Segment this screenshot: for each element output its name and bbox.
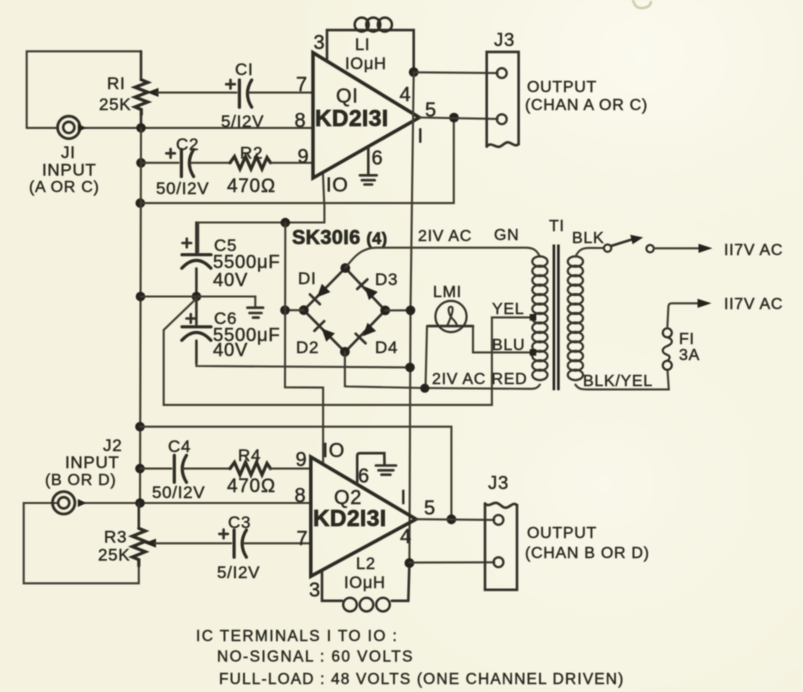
inductor L1 leads bbox=[327, 30, 414, 72]
wiper arrow R1 bbox=[147, 88, 159, 97]
junction C6 rail bbox=[405, 363, 415, 373]
arrow 117V AC top bbox=[699, 244, 713, 253]
wire R4 to pin9 bbox=[271, 468, 311, 470]
svg-text:OUTPUT: OUTPUT bbox=[527, 525, 597, 542]
svg-text:OUTPUT: OUTPUT bbox=[527, 79, 597, 96]
junction C4 branch bbox=[135, 464, 145, 474]
wire feedback row Q2 bbox=[140, 427, 451, 520]
capacitor C6 bbox=[182, 297, 211, 364]
junction pin4 node bbox=[409, 67, 419, 77]
wire J1 input to bus bbox=[27, 127, 313, 129]
svg-text:LI: LI bbox=[355, 36, 370, 54]
ground Q2 pin6 bbox=[376, 466, 396, 475]
svg-text:470Ω: 470Ω bbox=[227, 176, 276, 197]
svg-text:IO: IO bbox=[326, 175, 349, 197]
junction bridge bottom bbox=[340, 347, 350, 357]
capacitor C2 bbox=[166, 149, 193, 177]
svg-text:D3: D3 bbox=[375, 270, 398, 289]
wire R2 to pin9 bbox=[271, 162, 314, 164]
svg-text:6: 6 bbox=[358, 466, 370, 488]
op-amp Q2 body bbox=[311, 457, 416, 576]
wire J2 ground loop bbox=[24, 503, 139, 583]
junction ground bus tap bbox=[136, 292, 146, 302]
svg-text:C3: C3 bbox=[228, 513, 251, 532]
wire bridge right to rail bbox=[385, 309, 410, 311]
wire BLK primary top bbox=[575, 248, 604, 257]
svg-text:8: 8 bbox=[295, 485, 307, 507]
svg-text:YEL: YEL bbox=[492, 301, 524, 318]
svg-text:IO: IO bbox=[323, 440, 346, 462]
wire bridge top to GN bbox=[345, 248, 540, 268]
svg-text:(A OR C): (A OR C) bbox=[29, 179, 100, 196]
connector J3 top bbox=[487, 52, 519, 147]
svg-text:7: 7 bbox=[296, 74, 308, 96]
lamp left lead bbox=[426, 326, 428, 388]
svg-text:II7V AC: II7V AC bbox=[724, 296, 783, 313]
svg-text:6: 6 bbox=[372, 148, 384, 170]
svg-text:R3: R3 bbox=[104, 528, 127, 547]
junction C5 C6 midpoint bbox=[192, 292, 202, 302]
wiper arrow R3 bbox=[144, 539, 156, 548]
svg-text:FI: FI bbox=[679, 331, 695, 348]
wire fuse to 117V AC bbox=[667, 303, 700, 328]
arrow 117V AC bottom bbox=[698, 299, 712, 308]
junction J2 bus bbox=[135, 498, 145, 508]
lamp right lead to BLU bbox=[473, 326, 531, 352]
svg-text:5/I2V: 5/I2V bbox=[217, 563, 260, 582]
junction feedback row left bbox=[136, 198, 146, 208]
capacitor C1 bbox=[226, 80, 252, 107]
wire switch to 117V AC bbox=[654, 247, 701, 249]
wire C4 to R4 bbox=[183, 468, 230, 470]
wire pin10 drop bbox=[323, 173, 324, 204]
svg-text:INPUT: INPUT bbox=[65, 453, 120, 472]
ground Q1 pin6 bbox=[360, 175, 377, 184]
junction bridge top bbox=[340, 263, 350, 273]
svg-text:C2: C2 bbox=[176, 135, 199, 154]
svg-text:5/I2V: 5/I2V bbox=[221, 112, 264, 131]
svg-text:3A: 3A bbox=[679, 347, 700, 364]
node BLU tap square bbox=[530, 349, 537, 356]
diode D3 bbox=[357, 279, 378, 300]
rail V+ vertical bbox=[409, 72, 413, 563]
switch S1 pole bbox=[604, 244, 611, 251]
svg-text:BLU: BLU bbox=[492, 337, 525, 354]
svg-text:5: 5 bbox=[424, 498, 436, 520]
svg-text:470Ω: 470Ω bbox=[227, 476, 276, 497]
connector J1 bbox=[58, 116, 87, 138]
svg-text:40V: 40V bbox=[213, 269, 248, 290]
svg-text:3: 3 bbox=[309, 580, 321, 602]
svg-text:BLK: BLK bbox=[572, 230, 604, 247]
wire pin4 to J3 bottom bbox=[409, 561, 494, 563]
junction riser left vertex bbox=[280, 305, 290, 315]
svg-text:25K: 25K bbox=[99, 95, 131, 114]
junction bridge right bbox=[380, 306, 390, 316]
svg-text:J3: J3 bbox=[494, 29, 515, 50]
resistor R2 bbox=[230, 157, 271, 170]
wire C6 to rail bbox=[196, 364, 410, 368]
svg-text:GN: GN bbox=[494, 227, 519, 244]
svg-text:4: 4 bbox=[400, 526, 412, 548]
svg-text:IC TERMINALS I TO IO :: IC TERMINALS I TO IO : bbox=[196, 628, 398, 645]
capacitor C4 bbox=[174, 455, 186, 482]
wire supply row2 to C5 bbox=[198, 203, 324, 252]
fuse F1 bbox=[663, 328, 672, 370]
resistor R3 bbox=[132, 503, 145, 566]
wire C1 to pin7 bbox=[249, 92, 314, 94]
wire bridge bottom to RED bbox=[345, 352, 540, 389]
svg-text:25K: 25K bbox=[98, 546, 130, 565]
svg-text:NO-SIGNAL : 60 VOLTS: NO-SIGNAL : 60 VOLTS bbox=[217, 649, 414, 666]
junction R1 bottom bbox=[136, 123, 146, 133]
wire pin4 to J3 bbox=[414, 71, 498, 74]
wire midpoint to ground bbox=[141, 297, 256, 307]
rectifier bridge frame bbox=[304, 268, 385, 352]
svg-text:LMI: LMI bbox=[433, 284, 462, 301]
svg-text:J3: J3 bbox=[488, 472, 509, 493]
svg-text:RED: RED bbox=[492, 371, 528, 388]
diode D2 bbox=[314, 321, 335, 342]
svg-text:BLK/YEL: BLK/YEL bbox=[583, 373, 653, 390]
svg-text:2IV AC: 2IV AC bbox=[418, 228, 472, 245]
svg-text:SK30I6 (4): SK30I6 (4) bbox=[292, 227, 387, 249]
wire bridge left to riser bbox=[285, 309, 304, 311]
svg-text:TI: TI bbox=[549, 218, 565, 235]
junction pin5 node bbox=[449, 113, 459, 123]
junction bridge left bbox=[299, 305, 309, 315]
svg-text:D4: D4 bbox=[375, 338, 398, 357]
wire BLK/YEL primary bottom bbox=[575, 370, 668, 390]
transformer T1 primary winding bbox=[568, 256, 583, 380]
junction lamp RED bbox=[420, 384, 429, 393]
lamp LM1 bbox=[428, 301, 474, 332]
switch S1 blade bbox=[611, 235, 643, 246]
svg-text:8: 8 bbox=[295, 110, 307, 132]
svg-text:R2: R2 bbox=[240, 144, 263, 163]
transformer T1 core bbox=[554, 245, 559, 391]
junction rail bridge right bbox=[406, 306, 416, 316]
svg-text:7: 7 bbox=[297, 528, 309, 550]
svg-text:9: 9 bbox=[296, 449, 308, 471]
wire bus to C4 bbox=[140, 468, 171, 470]
capacitor C3 bbox=[219, 530, 246, 558]
svg-text:CI: CI bbox=[235, 60, 253, 79]
inductor L2 leads bbox=[322, 563, 409, 601]
transformer T1 secondary winding bbox=[532, 256, 547, 380]
inductor L2 coil bbox=[343, 598, 390, 612]
wire YEL tap to ground node bbox=[164, 299, 531, 405]
wire feedback row Q1 bbox=[140, 118, 454, 204]
svg-text:FULL-LOAD : 48 VOLTS (ONE CHAN: FULL-LOAD : 48 VOLTS (ONE CHANNEL DRIVEN… bbox=[219, 671, 624, 688]
svg-text:9: 9 bbox=[298, 146, 310, 168]
capacitor C5 bbox=[182, 223, 211, 297]
diode D1 bbox=[310, 284, 331, 305]
pin 6 lead bbox=[367, 148, 370, 175]
junction pin5 node Q2 bbox=[447, 514, 457, 524]
wire J2 to bus bbox=[85, 502, 311, 504]
wire R3 wiper to C3 bbox=[155, 542, 231, 544]
stray mark top right bbox=[633, 0, 651, 8]
svg-text:IOμH: IOμH bbox=[344, 574, 386, 592]
svg-text:40V: 40V bbox=[213, 339, 248, 360]
svg-text:50/I2V: 50/I2V bbox=[156, 179, 209, 198]
switch S1 throw bbox=[646, 245, 653, 252]
op-amp Q1 body bbox=[313, 53, 419, 178]
svg-text:JI: JI bbox=[61, 143, 76, 162]
svg-text:L2: L2 bbox=[356, 555, 376, 573]
junction row2 bridge riser bbox=[281, 218, 291, 228]
svg-text:4: 4 bbox=[400, 84, 412, 106]
svg-text:2IV AC: 2IV AC bbox=[432, 371, 486, 388]
svg-text:(B OR D): (B OR D) bbox=[45, 472, 116, 489]
pin 6 lead and hook bbox=[357, 453, 384, 484]
resistor R4 bbox=[230, 462, 271, 475]
wire J1 ground loop bbox=[27, 51, 141, 128]
junction pin4 node Q2 bbox=[405, 558, 415, 568]
svg-text:D2: D2 bbox=[296, 338, 319, 357]
wire bus to C2 bbox=[141, 162, 179, 164]
wire pin5 to J3 bbox=[419, 118, 497, 119]
connector J3 bottom bbox=[485, 503, 517, 590]
junction C2 branch bbox=[136, 158, 146, 168]
svg-text:INPUT: INPUT bbox=[42, 161, 97, 180]
svg-text:3: 3 bbox=[314, 32, 326, 54]
inductor L1 coil bbox=[355, 18, 392, 32]
wire R1 wiper to C1 bbox=[157, 92, 237, 94]
svg-text:KD2I3I: KD2I3I bbox=[313, 505, 386, 531]
wire C3 to pin7 bbox=[243, 542, 311, 544]
wire bridge left riser bbox=[285, 223, 323, 465]
svg-text:R4: R4 bbox=[238, 446, 261, 465]
wire bus vertical J1-R3 bbox=[140, 128, 141, 503]
ground C5 C6 bbox=[247, 308, 263, 318]
diode D4 bbox=[356, 323, 377, 344]
svg-text:KD2I3I: KD2I3I bbox=[315, 105, 388, 131]
svg-text:50/I2V: 50/I2V bbox=[152, 483, 205, 502]
junction feedback row2 left bbox=[135, 422, 145, 432]
resistor R1 bbox=[135, 51, 148, 128]
svg-text:(CHAN A OR C): (CHAN A OR C) bbox=[525, 97, 648, 114]
svg-text:I: I bbox=[418, 126, 424, 148]
wire pin5 to J3 bottom bbox=[416, 518, 494, 521]
connector J2 bbox=[53, 492, 87, 514]
svg-text:I: I bbox=[401, 487, 407, 509]
svg-text:IOμH: IOμH bbox=[345, 55, 387, 73]
svg-text:II7V AC: II7V AC bbox=[724, 242, 783, 259]
svg-text:C4: C4 bbox=[168, 437, 191, 456]
svg-text:(CHAN B OR D): (CHAN B OR D) bbox=[525, 545, 650, 562]
svg-text:RI: RI bbox=[107, 74, 125, 93]
svg-text:DI: DI bbox=[298, 269, 316, 288]
wire C2 to R2 bbox=[191, 162, 231, 164]
node YEL tap square bbox=[530, 314, 537, 321]
